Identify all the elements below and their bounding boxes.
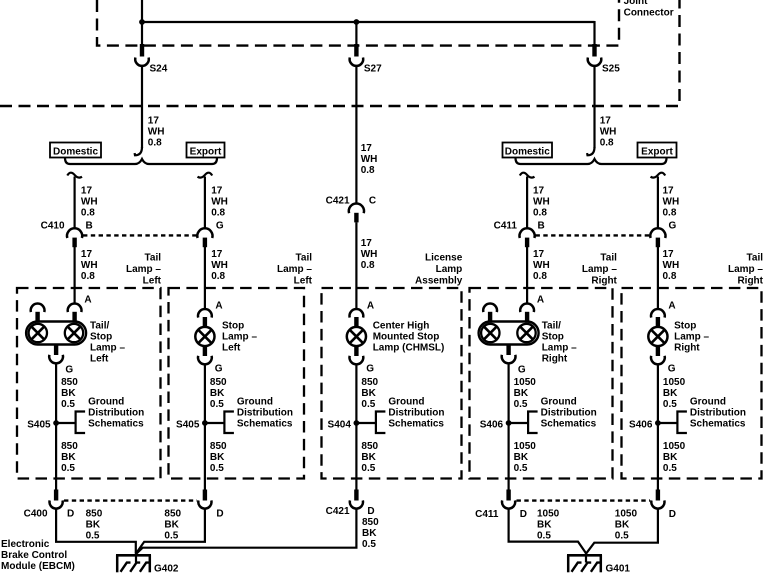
value label 17 WH 0.8: [533, 186, 550, 219]
svg-text:Right: Right: [591, 275, 617, 286]
lamp L4 Tail/Stop Lamp Right: [479, 304, 539, 364]
svg-text:S406: S406: [480, 419, 504, 430]
svg-text:Domestic: Domestic: [53, 146, 98, 157]
value label 17 WH 0.8: [361, 143, 378, 176]
svg-text:D: D: [520, 509, 527, 520]
svg-text:D: D: [367, 506, 374, 517]
node splice S406: [480, 412, 538, 434]
value label 1050 BK 0.5: [663, 441, 686, 474]
value label 17 WH 0.8: [211, 249, 228, 282]
svg-text:Electronic: Electronic: [1, 539, 50, 550]
wire: [355, 222, 357, 309]
svg-text:BK: BK: [362, 528, 377, 539]
svg-text:17: 17: [81, 186, 93, 197]
svg-text:WH: WH: [148, 127, 165, 138]
svg-text:S406: S406: [629, 419, 653, 430]
svg-text:Tail/: Tail/: [90, 320, 109, 331]
node Tail Lamp Right harness label: [582, 252, 618, 286]
svg-text:0.5: 0.5: [615, 531, 629, 542]
node splice S404: [328, 412, 386, 434]
connector C410 pin B: [67, 228, 82, 247]
svg-text:0.5: 0.5: [663, 463, 677, 474]
svg-text:0.8: 0.8: [148, 138, 162, 149]
option label Domestic: [503, 143, 553, 158]
svg-text:0.5: 0.5: [210, 399, 224, 410]
svg-text:WH: WH: [533, 197, 550, 208]
svg-text:0.8: 0.8: [211, 271, 225, 282]
svg-text:0.8: 0.8: [663, 271, 677, 282]
label Ground Distribution Schematics: [690, 397, 746, 430]
svg-text:Right: Right: [737, 275, 763, 286]
svg-text:17: 17: [600, 116, 612, 127]
label Center High Mounted Stop Lamp: [373, 320, 445, 353]
value label 17 WH 0.8: [533, 249, 550, 282]
svg-text:Connector: Connector: [624, 7, 674, 18]
option label Domestic: [50, 143, 101, 158]
wire C421 D to G402: [136, 508, 356, 554]
wire: [657, 247, 659, 309]
svg-text:0.8: 0.8: [361, 260, 375, 271]
wire: [593, 21, 595, 46]
svg-text:C400: C400: [24, 509, 48, 520]
svg-text:Distribution: Distribution: [88, 408, 144, 419]
wire: [355, 22, 357, 46]
svg-text:BK: BK: [361, 388, 376, 399]
svg-text:0.5: 0.5: [210, 463, 224, 474]
svg-text:S27: S27: [364, 64, 382, 75]
svg-text:G: G: [366, 364, 374, 375]
svg-text:BK: BK: [663, 452, 678, 463]
value label 1050 BK 0.5: [537, 509, 560, 542]
svg-text:Export: Export: [641, 146, 673, 157]
svg-text:0.5: 0.5: [514, 463, 528, 474]
wire ground branch: [55, 363, 57, 490]
wire: [73, 247, 75, 304]
svg-text:Tail: Tail: [747, 252, 764, 263]
label Ground Distribution Schematics: [388, 397, 444, 430]
svg-text:Lamp –: Lamp –: [222, 331, 257, 342]
option brace right: [516, 158, 667, 164]
svg-text:0.5: 0.5: [361, 463, 375, 474]
lamp L1 Tail/Stop Lamp Left: [26, 304, 86, 364]
svg-text:0.5: 0.5: [61, 399, 75, 410]
svg-text:0.5: 0.5: [361, 399, 375, 410]
svg-text:BK: BK: [514, 388, 529, 399]
option brace left: [65, 158, 217, 164]
svg-text:WH: WH: [600, 127, 617, 138]
connector C411 dotted link: [517, 499, 651, 501]
svg-text:Tail: Tail: [600, 252, 617, 263]
value label 850 BK 0.5: [86, 509, 103, 542]
svg-text:1050: 1050: [615, 509, 638, 520]
svg-text:Stop: Stop: [674, 320, 696, 331]
wire: [526, 247, 528, 304]
svg-text:A: A: [84, 294, 91, 305]
wire ground branch: [508, 363, 510, 490]
svg-text:17: 17: [663, 249, 675, 260]
connector C411 dotted link: [536, 234, 650, 236]
wire C400 D left to G402: [56, 508, 136, 554]
svg-text:BK: BK: [61, 388, 76, 399]
label Ground Distribution Schematics: [237, 397, 293, 430]
svg-text:S405: S405: [27, 419, 51, 430]
splice S27: [350, 44, 383, 75]
svg-text:Export: Export: [190, 146, 222, 157]
connector C411 pin B: [520, 228, 535, 247]
wire export branch: [198, 173, 213, 229]
svg-text:BK: BK: [514, 452, 529, 463]
wire ground branch: [204, 364, 206, 490]
connector C411 pin D right: [651, 490, 664, 509]
joint connector label: [624, 0, 674, 18]
box outline tail/stop lamp right: [470, 288, 613, 479]
svg-text:Tail/: Tail/: [542, 320, 561, 331]
value label 850 BK 0.5: [210, 441, 227, 474]
label Stop Lamp Right: [674, 320, 709, 353]
svg-text:WH: WH: [663, 260, 680, 271]
svg-text:G: G: [518, 365, 526, 376]
node splice S405: [27, 412, 85, 434]
option label Export: [187, 143, 225, 158]
box outline stop lamp right: [622, 288, 762, 479]
value label 850 BK 0.5: [362, 517, 379, 550]
connector C411 pin G: [650, 228, 665, 247]
connector C410 dotted link: [83, 234, 197, 236]
svg-text:0.8: 0.8: [81, 208, 95, 219]
wire: [141, 0, 143, 46]
svg-text:Lamp –: Lamp –: [126, 264, 161, 275]
svg-text:License: License: [425, 252, 463, 263]
svg-text:Ground: Ground: [690, 397, 726, 408]
value label 17 WH 0.8: [663, 186, 680, 219]
svg-text:Ground: Ground: [88, 397, 124, 408]
svg-text:Distribution: Distribution: [388, 408, 444, 419]
svg-text:1050: 1050: [514, 441, 537, 452]
wire ground branch: [355, 364, 357, 490]
svg-text:0.5: 0.5: [86, 531, 100, 542]
svg-text:850: 850: [361, 377, 378, 388]
svg-text:17: 17: [361, 238, 373, 249]
wire from S27: [355, 66, 357, 204]
svg-text:S25: S25: [602, 64, 620, 75]
svg-text:Lamp: Lamp: [436, 264, 463, 275]
value label 850 BK 0.5: [61, 441, 78, 474]
connector C400 dotted link: [64, 499, 197, 501]
svg-text:A: A: [537, 294, 544, 305]
svg-text:1050: 1050: [514, 377, 537, 388]
lamp L3 CHMSL: [347, 309, 366, 364]
svg-text:Lamp –: Lamp –: [90, 342, 125, 353]
svg-text:BK: BK: [86, 520, 101, 531]
label Ground Distribution Schematics: [88, 397, 144, 430]
svg-text:WH: WH: [361, 154, 378, 165]
svg-text:C410: C410: [41, 220, 65, 231]
svg-text:S24: S24: [150, 64, 168, 75]
value label 17 WH 0.8: [663, 249, 680, 282]
svg-text:0.8: 0.8: [533, 208, 547, 219]
svg-text:WH: WH: [81, 260, 98, 271]
ground G401: [567, 552, 602, 572]
svg-text:17: 17: [663, 186, 675, 197]
svg-text:0.8: 0.8: [361, 165, 375, 176]
svg-text:850: 850: [61, 441, 78, 452]
svg-text:Left: Left: [143, 275, 162, 286]
value label 1050 BK 0.5: [663, 377, 686, 410]
value label 17 WH 0.8: [600, 116, 617, 149]
svg-text:850: 850: [362, 517, 379, 528]
label Ground Distribution Schematics: [541, 397, 597, 430]
label Tail/Stop Lamp Right: [542, 320, 577, 364]
harness boundary dashed: [0, 0, 680, 106]
joint connector box outline: [97, 0, 619, 46]
svg-text:Ground: Ground: [388, 397, 424, 408]
svg-text:Center High: Center High: [373, 320, 430, 331]
svg-text:0.8: 0.8: [211, 208, 225, 219]
label Electronic Brake Control Module: [1, 539, 75, 572]
svg-text:Schematics: Schematics: [237, 419, 293, 430]
svg-text:Distribution: Distribution: [237, 408, 293, 419]
svg-text:WH: WH: [361, 249, 378, 260]
value label 17 WH 0.8: [148, 116, 165, 149]
box outline tail/stop lamp left: [17, 288, 161, 479]
svg-text:0.5: 0.5: [537, 531, 551, 542]
svg-text:Lamp –: Lamp –: [542, 342, 577, 353]
wire domestic branch: [67, 173, 82, 229]
svg-text:1050: 1050: [663, 441, 686, 452]
svg-text:Brake Control: Brake Control: [1, 550, 67, 561]
svg-text:850: 850: [210, 441, 227, 452]
wire C411 D left to G401: [509, 508, 586, 553]
node junction S27 feed: [354, 19, 360, 25]
wire C411 D right to G401: [586, 508, 658, 553]
svg-text:850: 850: [61, 377, 78, 388]
wire from S25: [587, 66, 594, 156]
node License Lamp Assembly label: [415, 252, 463, 286]
svg-text:G401: G401: [606, 563, 631, 574]
label Tail/Stop Lamp Left: [90, 320, 125, 364]
svg-text:B: B: [86, 220, 93, 231]
svg-text:C: C: [369, 195, 376, 206]
wire C400 D right to G402: [136, 508, 205, 553]
svg-text:A: A: [367, 300, 374, 311]
svg-text:Stop: Stop: [222, 320, 244, 331]
svg-text:850: 850: [86, 509, 103, 520]
svg-text:17: 17: [361, 143, 373, 154]
svg-text:0.8: 0.8: [81, 271, 95, 282]
svg-text:1050: 1050: [663, 377, 686, 388]
value label 850 BK 0.5: [61, 377, 78, 410]
svg-text:WH: WH: [211, 197, 228, 208]
connector C400 pin D left: [50, 490, 63, 509]
svg-text:BK: BK: [615, 520, 630, 531]
node splice S406: [629, 412, 687, 434]
box outline CHMSL: [322, 288, 462, 479]
svg-text:Assembly: Assembly: [415, 275, 463, 286]
splice S25: [588, 44, 621, 75]
value label 850 BK 0.5: [164, 509, 181, 542]
ground G402: [116, 552, 151, 572]
svg-text:G: G: [65, 365, 73, 376]
option label Export: [638, 143, 677, 158]
svg-text:Left: Left: [90, 353, 109, 364]
svg-text:Module (EBCM): Module (EBCM): [1, 561, 75, 572]
svg-text:Right: Right: [542, 353, 568, 364]
svg-text:Domestic: Domestic: [505, 146, 550, 157]
svg-text:0.8: 0.8: [663, 208, 677, 219]
svg-text:WH: WH: [211, 260, 228, 271]
node Tail Lamp Left harness label: [126, 252, 162, 286]
svg-text:B: B: [538, 220, 545, 231]
svg-text:0.5: 0.5: [61, 463, 75, 474]
label Stop Lamp Left: [222, 320, 257, 353]
svg-text:Left: Left: [222, 342, 241, 353]
svg-text:17: 17: [533, 186, 545, 197]
svg-text:17: 17: [148, 116, 160, 127]
svg-text:BK: BK: [61, 452, 76, 463]
value label 850 BK 0.5: [361, 441, 378, 474]
svg-text:C411: C411: [475, 509, 499, 520]
svg-text:D: D: [216, 509, 223, 520]
svg-text:Lamp –: Lamp –: [674, 331, 709, 342]
node splice S405: [176, 412, 234, 434]
value label 1050 BK 0.5: [514, 377, 537, 410]
splice S24: [135, 44, 168, 75]
svg-text:1050: 1050: [537, 509, 560, 520]
svg-text:Lamp –: Lamp –: [277, 264, 312, 275]
svg-text:Lamp –: Lamp –: [728, 264, 763, 275]
svg-text:Joint: Joint: [624, 0, 649, 7]
svg-text:0.5: 0.5: [663, 399, 677, 410]
svg-text:WH: WH: [81, 197, 98, 208]
wire: [204, 247, 206, 309]
svg-text:0.8: 0.8: [533, 271, 547, 282]
value label 850 BK 0.5: [361, 377, 378, 410]
node junction S24 feed: [139, 19, 145, 25]
svg-text:Distribution: Distribution: [541, 408, 597, 419]
svg-text:Stop: Stop: [542, 331, 564, 342]
svg-text:BK: BK: [663, 388, 678, 399]
svg-text:Mounted Stop: Mounted Stop: [373, 331, 440, 342]
svg-text:Schematics: Schematics: [88, 419, 144, 430]
value label 17 WH 0.8: [81, 186, 98, 219]
svg-text:BK: BK: [361, 452, 376, 463]
svg-text:C411: C411: [494, 220, 518, 231]
node Tail Lamp Right harness label 2: [728, 252, 764, 286]
svg-text:0.5: 0.5: [514, 399, 528, 410]
value label 850 BK 0.5: [210, 377, 227, 410]
lamp L2 Stop Lamp Left: [195, 309, 214, 364]
svg-text:Left: Left: [294, 275, 313, 286]
svg-text:G: G: [215, 364, 223, 375]
node Tail Lamp Left harness label 2: [277, 252, 313, 286]
connector C421 pin D: [350, 490, 363, 509]
svg-text:Schematics: Schematics: [690, 419, 746, 430]
wire from S24: [135, 66, 142, 156]
value label 17 WH 0.8: [211, 186, 228, 219]
svg-text:G402: G402: [154, 563, 179, 574]
svg-text:D: D: [669, 509, 676, 520]
svg-text:G: G: [669, 220, 677, 231]
svg-text:C421: C421: [326, 195, 350, 206]
box outline stop lamp left: [169, 288, 305, 479]
svg-text:17: 17: [81, 249, 93, 260]
svg-text:850: 850: [361, 441, 378, 452]
value label 17 WH 0.8: [81, 249, 98, 282]
connector C400 pin D right: [198, 490, 211, 509]
wire domestic branch right: [520, 173, 535, 229]
wire ground branch: [657, 364, 659, 490]
svg-text:D: D: [67, 509, 74, 520]
svg-text:WH: WH: [663, 197, 680, 208]
svg-text:Schematics: Schematics: [388, 419, 444, 430]
svg-text:WH: WH: [533, 260, 550, 271]
svg-text:Tail: Tail: [296, 252, 313, 263]
svg-text:C421: C421: [326, 506, 350, 517]
wire export branch right: [651, 173, 666, 229]
svg-text:Stop: Stop: [90, 331, 112, 342]
svg-text:Right: Right: [674, 342, 700, 353]
value label 17 WH 0.8: [361, 238, 378, 271]
svg-text:A: A: [215, 300, 222, 311]
svg-text:Lamp –: Lamp –: [582, 264, 617, 275]
svg-text:0.5: 0.5: [164, 531, 178, 542]
svg-text:Ground: Ground: [541, 397, 577, 408]
svg-text:Ground: Ground: [237, 397, 273, 408]
connector C421 pin C: [349, 203, 364, 222]
svg-text:Distribution: Distribution: [690, 408, 746, 419]
value label 1050 BK 0.5: [514, 441, 537, 474]
svg-text:S404: S404: [328, 419, 352, 430]
svg-text:17: 17: [211, 186, 223, 197]
svg-text:G: G: [668, 364, 676, 375]
svg-text:850: 850: [210, 377, 227, 388]
svg-text:Tail: Tail: [145, 252, 162, 263]
svg-text:17: 17: [211, 249, 223, 260]
svg-text:S405: S405: [176, 419, 200, 430]
svg-text:0.8: 0.8: [600, 138, 614, 149]
svg-text:0.5: 0.5: [362, 539, 376, 550]
svg-text:A: A: [668, 300, 675, 311]
connector C411 pin D left: [502, 490, 515, 509]
svg-text:Lamp (CHMSL): Lamp (CHMSL): [373, 342, 445, 353]
svg-text:850: 850: [164, 509, 181, 520]
svg-text:BK: BK: [537, 520, 552, 531]
svg-text:17: 17: [533, 249, 545, 260]
svg-text:BK: BK: [210, 388, 225, 399]
lamp L5 Stop Lamp Right: [648, 309, 667, 364]
svg-text:BK: BK: [210, 452, 225, 463]
svg-text:G: G: [216, 220, 224, 231]
value label 1050 BK 0.5: [615, 509, 638, 542]
svg-text:Schematics: Schematics: [541, 419, 597, 430]
wire: [142, 21, 595, 23]
svg-text:BK: BK: [164, 520, 179, 531]
connector C410 pin G: [197, 228, 212, 247]
